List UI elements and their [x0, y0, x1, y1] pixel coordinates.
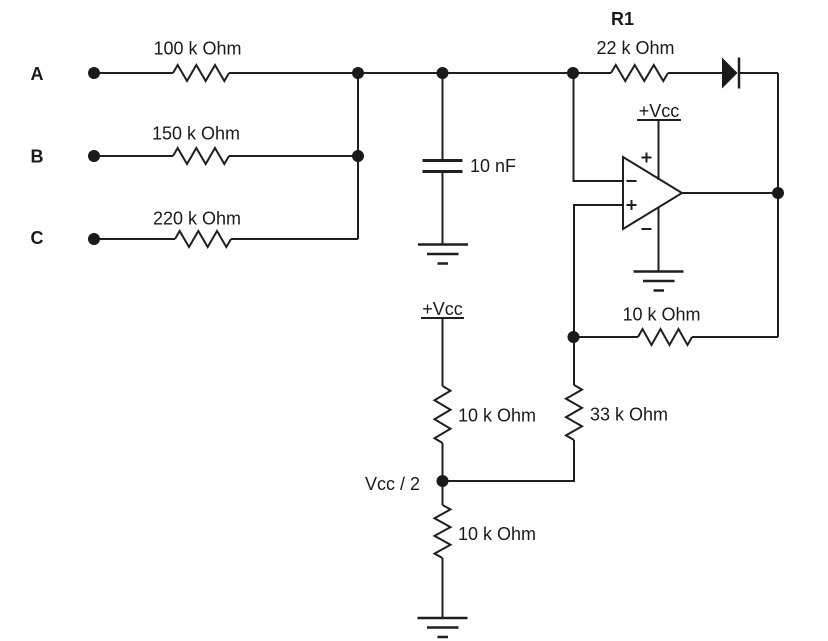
svg-text:22 k Ohm: 22 k Ohm	[596, 38, 674, 58]
ground (divider)	[418, 618, 468, 637]
svg-text:C: C	[31, 228, 44, 248]
junction dot input C	[88, 233, 100, 245]
junction dot Vcc/2 node	[437, 475, 449, 487]
ground (capacitor)	[418, 245, 468, 264]
wire resistor B to bus	[229, 155, 358, 157]
wire diode to right corner	[740, 72, 778, 74]
svg-text:220 k Ohm: 220 k Ohm	[153, 209, 241, 229]
svg-text:+Vcc: +Vcc	[422, 299, 463, 319]
wire input C to resistor	[94, 238, 175, 240]
wire input B to resistor	[94, 155, 173, 157]
op-amp U1 triangle	[623, 157, 682, 229]
svg-text:B: B	[31, 147, 44, 167]
wire Vcc/2 node to bottom 10k	[442, 481, 444, 505]
wire op-amp output	[682, 192, 778, 194]
op-amp supply pin top	[658, 120, 660, 180]
+Vcc rail symbol (divider) underline	[421, 317, 464, 319]
wire node to capacitor top	[442, 73, 444, 159]
wire right vertical (diode to feedback)	[777, 73, 779, 337]
resistor R1 22k	[611, 65, 668, 81]
resistor 150k (B)	[173, 148, 229, 164]
svg-text:+Vcc: +Vcc	[639, 101, 680, 121]
capacitor C1 10nF plates	[423, 159, 463, 162]
junction dot inverting node	[567, 67, 579, 79]
svg-text:10 k Ohm: 10 k Ohm	[622, 305, 700, 325]
op-amp supply pin bottom	[658, 208, 660, 272]
wire feedback node down to 33k	[573, 337, 575, 385]
wire bus vertical	[357, 73, 359, 239]
wire resistor C to bus corner	[231, 238, 358, 240]
junction dot output node	[772, 187, 784, 199]
op-amp minus marker inverting input	[627, 180, 637, 182]
op-amp minus marker bottom supply	[642, 228, 652, 230]
wire non-inverting input down to node	[574, 205, 623, 337]
junction dot input A	[88, 67, 100, 79]
svg-text:R1: R1	[611, 9, 634, 29]
resistor 10k feedback	[638, 329, 692, 345]
resistor 100k (A)	[173, 65, 229, 81]
svg-text:100 k Ohm: 100 k Ohm	[153, 39, 241, 59]
svg-text:150 k Ohm: 150 k Ohm	[152, 124, 240, 144]
junction dot bus row B	[352, 150, 364, 162]
svg-text:10 nF: 10 nF	[470, 156, 516, 176]
wire resistor A to node bus	[229, 72, 573, 74]
wire feedback node to 10k	[573, 336, 638, 338]
resistor 33k	[566, 385, 582, 440]
junction dot bus row A	[352, 67, 364, 79]
ground (op-amp)	[634, 272, 684, 291]
wire bottom 10k to ground	[442, 558, 444, 618]
op-amp plus marker non-inverting input	[627, 200, 637, 210]
svg-text:10 k Ohm: 10 k Ohm	[458, 406, 536, 426]
svg-text:A: A	[31, 64, 44, 84]
wire input A to resistor	[94, 72, 173, 74]
resistor 220k (C)	[175, 231, 231, 247]
svg-text:Vcc / 2: Vcc / 2	[365, 474, 420, 494]
resistor 10k lower divider	[435, 505, 451, 558]
junction dot feedback node	[568, 331, 580, 343]
svg-text:10 k Ohm: 10 k Ohm	[458, 524, 536, 544]
wire 10k feedback to right vertical	[692, 336, 778, 338]
+Vcc rail symbol (op-amp) underline	[637, 119, 681, 121]
wire 33k to Vcc/2 node	[443, 440, 575, 481]
wire top 10k to Vcc/2 node	[442, 443, 444, 481]
wire node to 22k	[573, 72, 611, 74]
wire capacitor bottom to ground	[442, 173, 444, 245]
resistor 10k upper divider	[435, 386, 451, 443]
junction dot input B	[88, 150, 100, 162]
op-amp plus marker top supply	[642, 153, 652, 163]
svg-text:33 k Ohm: 33 k Ohm	[590, 405, 668, 425]
wire node down to inverting input	[574, 73, 624, 181]
wire 22k to diode	[668, 72, 722, 74]
wire +Vcc to top 10k	[442, 318, 444, 386]
junction dot capacitor node	[437, 67, 449, 79]
diode D1	[722, 58, 739, 89]
